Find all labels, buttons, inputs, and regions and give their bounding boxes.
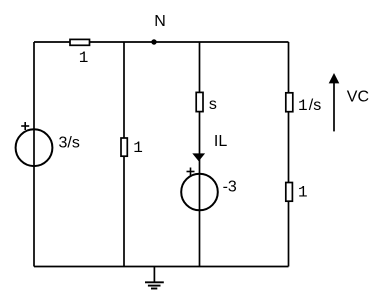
- svg-text:1: 1: [298, 97, 308, 115]
- svg-text:N: N: [154, 13, 166, 30]
- svg-text:-3: -3: [223, 178, 237, 195]
- voltage arrow VC: [329, 73, 369, 131]
- wire middle branch: [123, 42, 125, 267]
- voltage source 3/s: [16, 122, 80, 166]
- ground: [145, 267, 164, 289]
- wire top rail: [34, 41, 289, 43]
- svg-text:IL: IL: [214, 133, 227, 150]
- wire third branch: [199, 42, 201, 267]
- wire left branch: [33, 42, 35, 267]
- svg-text:/s: /s: [309, 97, 321, 114]
- svg-text:1: 1: [79, 49, 89, 67]
- svg-text:VC: VC: [347, 88, 369, 105]
- resistor 1 (right branch lower): [286, 183, 308, 202]
- voltage source -3: [181, 168, 237, 211]
- svg-text:1: 1: [298, 184, 308, 202]
- resistor 1 (middle branch): [121, 138, 143, 157]
- current arrow IL: [192, 133, 227, 161]
- svg-text:3/s: 3/s: [59, 134, 80, 151]
- impedance 1/s (right branch): [286, 93, 321, 115]
- resistor 1 (top horizontal): [70, 39, 90, 67]
- svg-text:s: s: [209, 96, 217, 113]
- node N: [151, 13, 166, 45]
- impedance s (third branch): [196, 92, 217, 113]
- svg-text:1: 1: [133, 139, 143, 157]
- wire bottom rail: [34, 266, 289, 268]
- wire right branch: [288, 42, 290, 267]
